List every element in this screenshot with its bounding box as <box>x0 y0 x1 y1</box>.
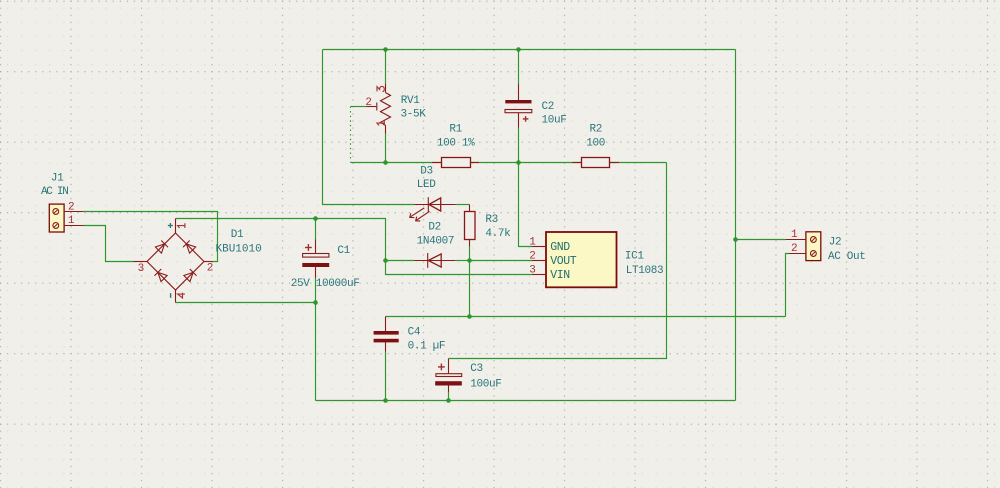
C2 value label <box>542 115 567 127</box>
R1 reference label <box>449 123 462 135</box>
D2 value label <box>417 235 455 247</box>
D1 pin number 2 <box>207 263 214 275</box>
wire J2 pin2 riser <box>786 254 790 317</box>
C4 reference label <box>408 327 421 339</box>
R2 value label <box>586 137 605 149</box>
svg-text:D2: D2 <box>428 221 441 233</box>
C4 value label <box>408 340 446 352</box>
C3 value label <box>470 379 501 391</box>
D1 diode arm bottom-right <box>184 269 197 282</box>
LED D3 <box>414 197 455 212</box>
resistor R2 <box>573 158 620 168</box>
C3 reference label <box>470 363 483 375</box>
diode D2 <box>414 253 455 268</box>
IC1 pin number 2 <box>529 250 536 262</box>
svg-text:2: 2 <box>68 201 75 213</box>
svg-text:1N4007: 1N4007 <box>417 235 455 247</box>
svg-text:GND: GND <box>550 241 570 254</box>
D1 pin number 4 <box>178 293 185 298</box>
J2 value label <box>828 251 866 263</box>
svg-text:1: 1 <box>68 215 75 227</box>
wire J1 pin2 to bridge <box>83 212 217 262</box>
svg-text:C1: C1 <box>337 245 350 257</box>
wire left drop to LED <box>323 50 415 205</box>
J1 pin number 1 <box>68 215 75 227</box>
svg-text:1: 1 <box>791 229 798 241</box>
wire RV1 top <box>385 50 387 84</box>
wire C2 top <box>518 50 520 85</box>
IC1 value label <box>626 265 664 277</box>
wire C2 bottom <box>518 128 520 163</box>
svg-text:R3: R3 <box>485 214 498 226</box>
svg-text:KBU1010: KBU1010 <box>216 244 262 256</box>
svg-text:100uF: 100uF <box>470 379 501 391</box>
D1 value label <box>216 244 262 256</box>
IC1 pin name VOUT <box>550 255 577 268</box>
wire right drop <box>735 50 737 401</box>
svg-text:C4: C4 <box>408 327 421 339</box>
svg-text:100 1%: 100 1% <box>437 137 475 149</box>
wire bridge minus to C1 <box>176 302 316 304</box>
svg-text:D1: D1 <box>231 229 244 241</box>
J2 reference label <box>829 236 842 248</box>
svg-text:LED: LED <box>417 179 437 191</box>
wire top bus <box>323 49 736 51</box>
svg-text:3: 3 <box>138 263 145 275</box>
potentiometer RV1 <box>366 84 390 134</box>
wire C1 bottom <box>315 278 317 303</box>
svg-text:C2: C2 <box>542 101 555 113</box>
svg-text:VOUT: VOUT <box>550 255 577 268</box>
capacitor C3 <box>435 359 462 393</box>
D3 reference label <box>420 166 433 178</box>
wire LED to R3 corner <box>456 204 470 206</box>
svg-text:IC1: IC1 <box>625 250 645 262</box>
C1 reference label <box>337 245 350 257</box>
RV1 reference label <box>401 95 421 107</box>
wire GND riser <box>519 163 533 247</box>
svg-text:C3: C3 <box>470 363 483 375</box>
IC1 reference label <box>625 250 645 262</box>
svg-text:AC Out: AC Out <box>828 251 866 263</box>
J1 reference label <box>51 172 64 184</box>
RV1 pin number 1 <box>377 121 384 126</box>
D3 value label <box>417 179 437 191</box>
D1 diode arm top-left <box>155 240 168 253</box>
wire C4 bottom <box>385 352 387 401</box>
wire C1 top <box>315 219 317 240</box>
wire RV1 wiper dashed drop <box>350 107 352 163</box>
D1 diode arm top-right <box>183 240 196 253</box>
wire bottom bus <box>316 400 736 402</box>
wire VOUT node to IC pin 2 <box>470 260 533 262</box>
J1 value label AC IN <box>41 186 68 198</box>
resistor R3 <box>465 205 476 247</box>
wire J2 pin1 feed <box>736 239 786 241</box>
R1 value label <box>437 137 475 149</box>
R2 reference label <box>589 123 602 135</box>
C1 plus sign <box>305 244 312 251</box>
IC1 pin name GND <box>550 241 570 254</box>
RV1 value label <box>401 108 427 120</box>
RV1 pin number 2 <box>365 97 372 109</box>
svg-text:25V 10000uF: 25V 10000uF <box>291 278 360 290</box>
wire raw node to D2 <box>386 260 414 262</box>
J2 pin number 2 <box>791 243 798 255</box>
wire RV1 bottom <box>385 134 387 163</box>
svg-text:LT1083: LT1083 <box>626 265 664 277</box>
svg-text:RV1: RV1 <box>401 95 421 107</box>
D3 LED arrows <box>410 208 430 221</box>
C2 plus sign <box>523 116 529 122</box>
wire R3 bottom <box>469 247 471 261</box>
svg-text:VIN: VIN <box>550 269 570 282</box>
capacitor C4 <box>374 317 399 352</box>
wire C3 bottom <box>448 392 450 401</box>
svg-text:2: 2 <box>207 263 214 275</box>
wire J1 pin1 to bridge <box>84 226 134 262</box>
capacitor C2 <box>505 84 532 128</box>
wire mid bus drop to C3 <box>449 163 667 359</box>
svg-text:100: 100 <box>586 137 605 149</box>
C3 plus sign <box>438 364 445 371</box>
svg-text:J1: J1 <box>51 172 64 184</box>
svg-text:D3: D3 <box>420 166 433 178</box>
D1 pin number 1 <box>178 223 185 228</box>
wire D2 to VOUT node <box>455 260 469 262</box>
D1 diode arm bottom-left <box>154 269 167 282</box>
D2 reference label <box>428 221 441 233</box>
svg-text:2: 2 <box>791 243 798 255</box>
wire output rail <box>386 316 786 318</box>
RV1 pin number 3 <box>377 86 384 91</box>
D1 pin name plus <box>168 223 173 228</box>
IC1 pin name VIN <box>550 269 570 282</box>
wire RV1 wiper feed <box>351 106 367 108</box>
IC1 pin number 1 <box>529 236 536 248</box>
svg-text:J2: J2 <box>829 236 842 248</box>
svg-text:3: 3 <box>529 264 536 276</box>
svg-text:10uF: 10uF <box>542 115 567 127</box>
wire bridge plus to raw node <box>176 219 386 261</box>
wire mid bus <box>351 162 667 164</box>
connector J1 <box>49 204 83 232</box>
D1 pin name minus <box>170 293 172 298</box>
svg-text:4.7k: 4.7k <box>485 228 511 240</box>
capacitor C1 <box>302 240 329 278</box>
J1 pin number 2 <box>68 201 75 213</box>
svg-text:AC IN: AC IN <box>41 186 68 198</box>
wire raw node to VIN <box>386 261 533 275</box>
bridge rectifier D1 <box>134 219 213 303</box>
svg-text:0.1 µF: 0.1 µF <box>408 340 446 352</box>
D1 reference label <box>231 229 244 241</box>
regulator IC1 <box>532 232 617 287</box>
R3 value label <box>485 228 511 240</box>
C2 reference label <box>542 101 555 113</box>
D1 pin number 3 <box>138 263 145 275</box>
wire C1 drop <box>315 303 317 401</box>
C1 value label <box>291 278 360 290</box>
wire VOUT node drop <box>469 261 471 317</box>
svg-text:2: 2 <box>365 97 372 109</box>
resistor R1 <box>432 158 479 168</box>
svg-text:2: 2 <box>529 250 536 262</box>
svg-text:3-5K: 3-5K <box>401 108 427 120</box>
J2 pin number 1 <box>791 229 798 241</box>
svg-text:R1: R1 <box>449 123 462 135</box>
IC1 pin number 3 <box>529 264 536 276</box>
svg-text:1: 1 <box>529 236 536 248</box>
R3 reference label <box>485 214 498 226</box>
svg-text:R2: R2 <box>589 123 602 135</box>
connector J2 <box>786 232 821 261</box>
